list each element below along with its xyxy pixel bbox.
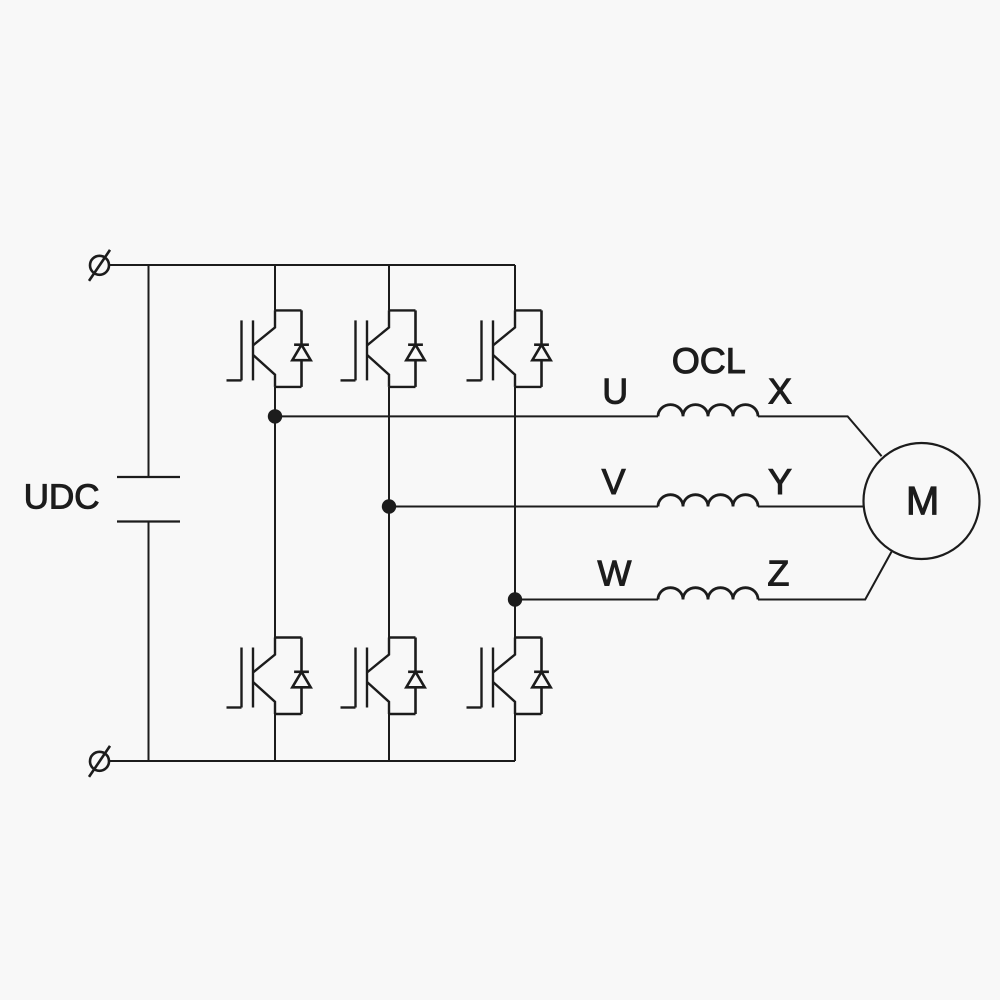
transistor Q6 (IGBT) bbox=[467, 638, 542, 715]
transistor Q2 (IGBT) bbox=[227, 638, 302, 715]
wire negative DC bus rail bbox=[110, 760, 515, 762]
wire leg 2 midpoint (phase V output node to lower IGBT) bbox=[388, 387, 390, 638]
terminal DC+ input (circle with slash) bbox=[89, 250, 110, 281]
wire leg 1 midpoint (phase U output node to lower IGBT) bbox=[274, 387, 276, 638]
wire phase U: choke to motor bbox=[758, 416, 882, 456]
label V (inverter output terminal) bbox=[602, 469, 626, 494]
diode D6 (freewheeling, antiparallel) bbox=[532, 638, 550, 715]
inductor L1 (OCL phase U) (output choke) bbox=[658, 405, 758, 417]
inductor L3 (OCL phase W) (output choke) bbox=[658, 588, 758, 600]
capacitor C1 (DC bus capacitor) bbox=[117, 477, 180, 522]
diode D3 (freewheeling, antiparallel) bbox=[406, 310, 424, 387]
wire phase V: node to choke bbox=[389, 506, 658, 508]
wire phase U: node to choke bbox=[275, 415, 658, 417]
diode D5 (freewheeling, antiparallel) bbox=[532, 310, 550, 387]
wire leg 1 collector lead from +rail bbox=[274, 265, 276, 310]
inductor L2 (OCL phase V) (output choke) bbox=[658, 495, 758, 507]
wire positive DC bus rail bbox=[110, 264, 515, 266]
motor M1 (circle) bbox=[864, 443, 980, 559]
wire leg 1 emitter lead to -rail bbox=[274, 714, 276, 761]
node phase V junction dot bbox=[382, 499, 396, 513]
node phase W junction dot bbox=[508, 592, 522, 606]
transistor Q1 (IGBT) bbox=[227, 310, 302, 387]
wire leg 2 emitter lead to -rail bbox=[388, 714, 390, 761]
label OCL (output choke) bbox=[674, 348, 745, 374]
label UDC (DC bus voltage) bbox=[26, 484, 98, 509]
label M (motor) bbox=[909, 487, 936, 515]
diode D2 (freewheeling, antiparallel) bbox=[292, 638, 310, 715]
wire phase W: choke to motor bbox=[758, 552, 892, 600]
wire phase V: choke to motor bbox=[758, 506, 864, 508]
wire leg 3 collector lead from +rail bbox=[514, 265, 516, 310]
wire capacitor bottom lead bbox=[148, 522, 150, 762]
wire leg 3 midpoint (phase W output node to lower IGBT) bbox=[514, 387, 516, 638]
transistor Q3 (IGBT) bbox=[341, 310, 416, 387]
label W (inverter output terminal) bbox=[598, 561, 632, 586]
wire leg 3 emitter lead to -rail bbox=[514, 714, 516, 761]
wire leg 2 collector lead from +rail bbox=[388, 265, 390, 310]
label U (inverter output terminal) bbox=[605, 379, 625, 404]
transistor Q4 (IGBT) bbox=[341, 638, 416, 715]
transistor Q5 (IGBT) bbox=[467, 310, 542, 387]
diode D1 (freewheeling, antiparallel) bbox=[292, 310, 310, 387]
terminal DC- input (circle with slash) bbox=[89, 746, 110, 777]
diode D4 (freewheeling, antiparallel) bbox=[406, 638, 424, 715]
label X (motor terminal) bbox=[769, 379, 791, 404]
wire capacitor top lead bbox=[148, 265, 150, 477]
label Z (motor terminal) bbox=[769, 561, 789, 586]
wire phase W: node to choke bbox=[515, 599, 658, 601]
label Y (motor terminal) bbox=[769, 469, 791, 494]
node phase U junction dot bbox=[268, 409, 282, 423]
